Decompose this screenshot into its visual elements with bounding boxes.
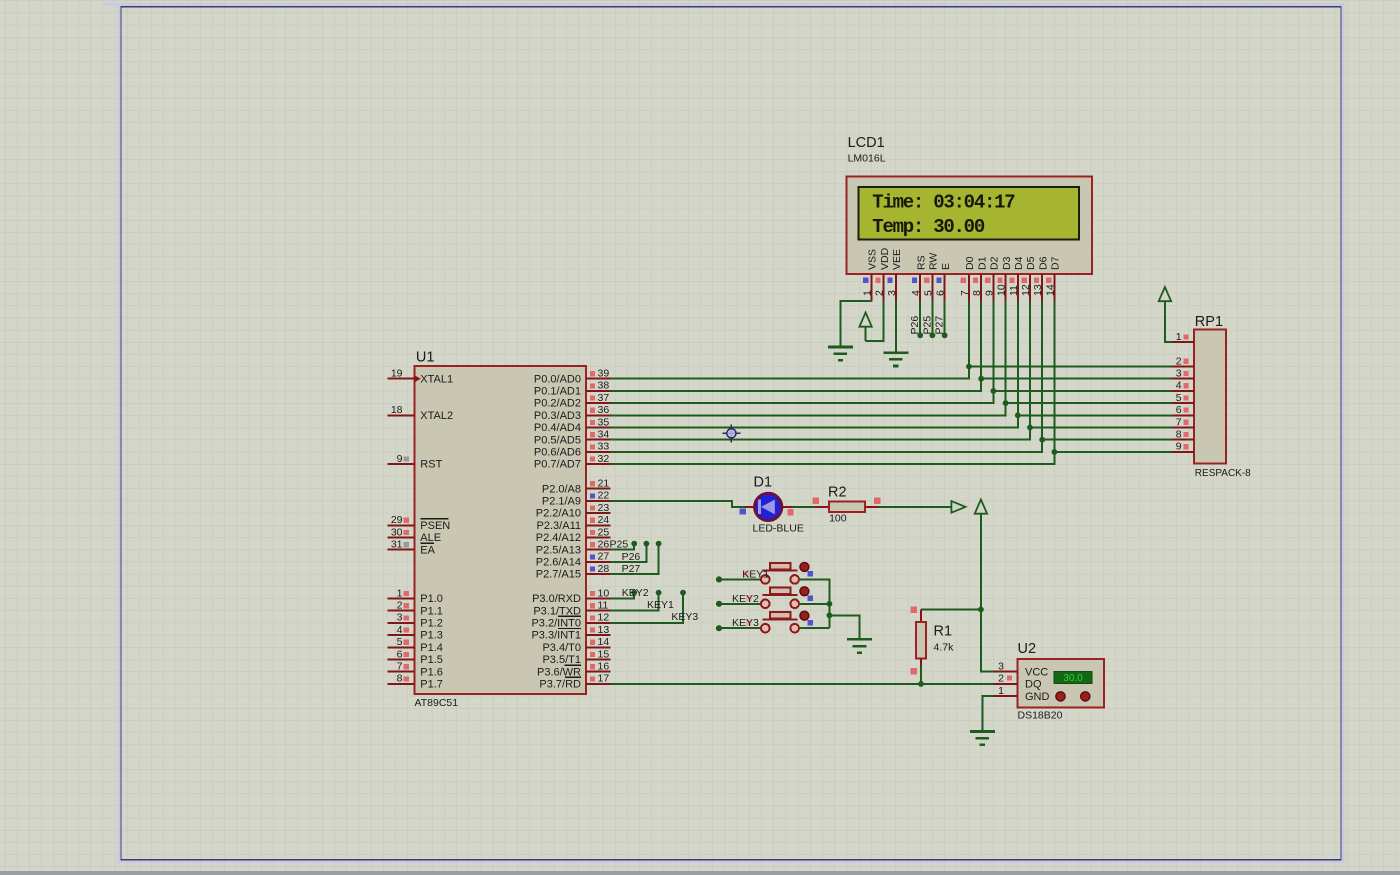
svg-text:P2.0/A8: P2.0/A8 (542, 483, 581, 495)
wire DQ net U1 P3.7 to U2 (611, 683, 994, 685)
svg-text:22: 22 (598, 490, 610, 502)
svg-text:D6: D6 (1037, 256, 1049, 270)
ground for LCD VSS (828, 347, 853, 360)
LCD1 pin 7 (D0) (959, 256, 976, 301)
RP1 pin 1 (1172, 331, 1194, 343)
wire net D3: LCD pin 10 / U1 P0.3 / RP1 pin 5 (611, 301, 1172, 415)
resistor pack RP1 body (1194, 329, 1226, 463)
svg-text:3: 3 (886, 290, 898, 296)
U1 pin 21 (P2.0/A8) (542, 478, 611, 496)
svg-text:XTAL1: XTAL1 (420, 373, 453, 385)
ground for U2 (970, 732, 995, 745)
push button KEY3 (716, 611, 813, 632)
svg-text:3: 3 (998, 660, 1004, 672)
svg-text:RW: RW (928, 253, 940, 270)
svg-text:VSS: VSS (867, 249, 879, 270)
wire RP1 pin1 to power (1165, 301, 1172, 343)
svg-text:4: 4 (1176, 380, 1182, 392)
wire net D7: LCD pin 14 / U1 P0.7 / RP1 pin 9 (611, 301, 1172, 464)
svg-text:38: 38 (598, 380, 610, 392)
RP1 pin 5 (1172, 392, 1194, 404)
svg-text:Temp: 30.00: Temp: 30.00 (872, 216, 985, 238)
svg-text:2: 2 (998, 673, 1004, 685)
U1 pin 3 (P1.2) (388, 612, 443, 630)
svg-text:KEY2: KEY2 (732, 593, 759, 605)
svg-text:5: 5 (1176, 392, 1182, 404)
wire U2 GND to ground (982, 696, 993, 731)
svg-text:Time: 03:04:17: Time: 03:04:17 (872, 191, 1015, 213)
wire U1 P2.6 net P26 (611, 541, 650, 562)
svg-text:2: 2 (874, 290, 886, 296)
U1 pin 27 (P2.6/A14) (536, 551, 611, 569)
svg-text:16: 16 (598, 661, 610, 673)
svg-text:2: 2 (397, 600, 403, 612)
svg-text:P3.7/RD: P3.7/RD (539, 679, 581, 691)
U1 pin 5 (P1.4) (388, 636, 443, 654)
svg-text:29: 29 (391, 514, 403, 526)
svg-text:P0.4/AD4: P0.4/AD4 (534, 422, 581, 434)
wire LCD VDD to power (866, 301, 884, 341)
RP1 pin 9 (1172, 441, 1194, 453)
svg-text:RS: RS (915, 255, 927, 270)
power symbol VCC rail (975, 500, 987, 514)
U1 pin 2 (P1.1) (388, 600, 443, 618)
svg-text:8: 8 (397, 673, 403, 685)
wire LCD pin 6 net P27 (934, 301, 948, 338)
wire net D4: LCD pin 11 / U1 P0.4 / RP1 pin 6 (611, 301, 1172, 428)
svg-text:P2.6/A14: P2.6/A14 (536, 557, 581, 569)
svg-text:4: 4 (910, 290, 922, 296)
svg-text:P25: P25 (610, 539, 629, 551)
U1 pin 4 (P1.3) (388, 624, 443, 642)
svg-text:15: 15 (598, 648, 610, 660)
RP1 pin 7 (1172, 416, 1194, 428)
svg-text:34: 34 (598, 429, 610, 441)
svg-text:KEY1: KEY1 (647, 599, 674, 611)
svg-text:P1.6: P1.6 (420, 666, 443, 678)
svg-text:P3.1/TXD: P3.1/TXD (533, 605, 581, 617)
LCD1 pin 2 (VDD) (874, 247, 891, 301)
svg-text:RST: RST (420, 459, 442, 471)
wire U1 net KEY2 (611, 590, 638, 599)
svg-text:KEY3: KEY3 (671, 611, 698, 623)
svg-text:10: 10 (996, 284, 1008, 296)
svg-text:LM016L: LM016L (848, 153, 886, 165)
U1 pin 13 (P3.3/INT1) (531, 624, 610, 642)
wire buttons common to ground (829, 615, 859, 639)
junction VCC/R1 (978, 607, 984, 613)
U2 body (DS18B20) (1017, 659, 1104, 708)
U1 pin 35 (P0.4/AD4) (534, 416, 611, 434)
wire net D2: LCD pin 9 / U1 P0.2 / RP1 pin 4 (611, 301, 1172, 403)
svg-text:4: 4 (397, 624, 403, 636)
junction bus/ground branch (827, 612, 833, 618)
svg-text:14: 14 (1044, 284, 1056, 296)
svg-text:VDD: VDD (879, 247, 891, 270)
U1 pin 32 (P0.7/AD7) (534, 453, 611, 471)
LCD1 pin 5 (RW) (922, 253, 939, 302)
svg-text:P26: P26 (622, 551, 641, 563)
wire power stem VDD (865, 326, 867, 341)
wire KEY2 right (799, 603, 829, 605)
label KEY1 (742, 568, 769, 580)
svg-text:27: 27 (598, 551, 610, 563)
U1 pin 33 (P0.6/AD6) (534, 441, 611, 459)
D1 lead segments (745, 506, 793, 508)
resistor R1 (916, 610, 926, 669)
svg-text:LCD1: LCD1 (848, 135, 885, 151)
U1 pin 1 (P1.0) (388, 587, 443, 605)
push button KEY1 (716, 563, 813, 584)
power symbol RP1 (1159, 287, 1171, 301)
U1 pin 29 (PSEN) (388, 514, 451, 532)
svg-text:31: 31 (391, 539, 403, 551)
wire net D5: LCD pin 12 / U1 P0.5 / RP1 pin 7 (611, 301, 1172, 440)
svg-text:P0.7/AD7: P0.7/AD7 (534, 459, 581, 471)
svg-text:P27: P27 (934, 316, 946, 335)
svg-text:P3.3/INT1: P3.3/INT1 (531, 630, 581, 642)
wire LCD VEE to ground (895, 301, 897, 353)
U1 pin 14 (P3.4/T0) (542, 636, 610, 654)
svg-text:VEE: VEE (891, 249, 903, 270)
wire net D0: LCD pin 7 / U1 P0.0 / RP1 pin 2 (611, 301, 1172, 379)
U1 pin 23 (P2.2/A10) (536, 502, 611, 520)
svg-text:21: 21 (598, 478, 610, 490)
wire U1 net KEY3 (611, 590, 686, 623)
U1 pin 24 (P2.3/A11) (537, 514, 611, 532)
svg-text:P1.5: P1.5 (420, 654, 443, 666)
svg-text:AT89C51: AT89C51 (415, 697, 459, 709)
wire U1 P2.5 net P25 (611, 541, 638, 550)
svg-text:37: 37 (598, 392, 610, 404)
U1 pin 18 (XTAL2) (388, 404, 454, 422)
svg-text:KEY1: KEY1 (742, 568, 769, 580)
svg-text:9: 9 (1176, 441, 1182, 453)
U1 pin 12 (P3.2/INT0) (531, 612, 610, 630)
svg-text:4.7k: 4.7k (934, 641, 955, 653)
RP1 pin 4 (1172, 380, 1194, 392)
LCD1 pin 9 (D2) (983, 256, 1000, 301)
svg-text:KEY3: KEY3 (732, 617, 759, 629)
label KEY2 (732, 593, 759, 605)
svg-text:D7: D7 (1050, 256, 1062, 270)
svg-text:P1.2: P1.2 (420, 618, 443, 630)
svg-text:30: 30 (391, 526, 403, 538)
svg-text:KEY2: KEY2 (622, 587, 649, 599)
svg-text:P2.3/A11: P2.3/A11 (537, 520, 581, 532)
svg-text:ALE: ALE (420, 532, 441, 544)
R1 state squares (911, 607, 918, 675)
svg-text:7: 7 (959, 290, 971, 296)
svg-text:DS18B20: DS18B20 (1018, 710, 1063, 722)
svg-text:7: 7 (1176, 416, 1182, 428)
svg-text:12: 12 (598, 612, 610, 624)
ground for buttons (847, 639, 872, 652)
svg-text:P26: P26 (909, 316, 921, 335)
svg-text:XTAL2: XTAL2 (420, 410, 453, 422)
U2 internal labels (1025, 666, 1050, 703)
power symbol VDD (859, 313, 871, 327)
U1 pin 31 (EA) (388, 539, 436, 557)
RP1 pin 2 (1172, 355, 1194, 367)
svg-text:10: 10 (598, 587, 610, 599)
svg-text:14: 14 (598, 636, 610, 648)
U1 pin 37 (P0.2/AD2) (534, 392, 611, 410)
wire R1 bottom to DQ (920, 666, 922, 684)
U2 adjust buttons (1056, 692, 1090, 701)
IC U1 body (AT89C51) (414, 366, 586, 694)
svg-text:2: 2 (1176, 355, 1182, 367)
U1 pin 10 (P3.0/RXD) (532, 587, 610, 605)
U1 pin 39 (P0.0/AD0) (534, 368, 611, 386)
svg-text:23: 23 (598, 502, 610, 514)
wire U1 net KEY1 (611, 590, 662, 611)
svg-text:19: 19 (391, 368, 403, 380)
LCD1 screen (859, 187, 1079, 240)
svg-text:P3.2/INT0: P3.2/INT0 (531, 618, 581, 630)
svg-text:P0.1/AD1: P0.1/AD1 (534, 386, 581, 398)
svg-text:17: 17 (598, 673, 610, 685)
LCD1 pin 4 (RS) (910, 255, 927, 301)
svg-text:D5: D5 (1025, 256, 1037, 270)
junction R1/DQ (918, 681, 924, 687)
svg-text:P0.0/AD0: P0.0/AD0 (534, 373, 581, 385)
resistor R2 (829, 501, 865, 512)
svg-text:5: 5 (922, 290, 934, 296)
svg-text:1: 1 (998, 685, 1004, 697)
RP1 pin 8 (1172, 429, 1194, 441)
U1 pin 6 (P1.5) (388, 648, 443, 666)
svg-text:13: 13 (1032, 284, 1044, 296)
svg-text:D3: D3 (1001, 256, 1013, 270)
svg-text:28: 28 (598, 563, 610, 575)
wire KEY3 right (799, 627, 829, 629)
svg-text:P0.3/AD3: P0.3/AD3 (534, 410, 581, 422)
ground for LCD VEE (883, 353, 908, 366)
svg-text:39: 39 (598, 368, 610, 380)
svg-text:VCC: VCC (1025, 666, 1048, 678)
svg-text:P2.7/A15: P2.7/A15 (536, 569, 581, 581)
svg-text:32: 32 (598, 453, 610, 465)
U1 pin 25 (P2.4/A12) (536, 526, 611, 544)
U1 pin 16 (P3.6/WR) (537, 661, 611, 679)
R2 state squares (813, 498, 881, 505)
svg-text:13: 13 (598, 624, 610, 636)
svg-text:6: 6 (935, 290, 947, 296)
U1 pin 22 (P2.1/A9) (542, 490, 611, 508)
U2 pin 3 (VCC) (993, 660, 1017, 672)
wire VCC rail (981, 513, 994, 672)
svg-text:U2: U2 (1018, 641, 1037, 657)
svg-text:24: 24 (598, 514, 610, 526)
U1 pin 38 (P0.1/AD1) (534, 380, 611, 398)
svg-text:1: 1 (861, 290, 873, 296)
U1 pin 19 (XTAL1) (388, 368, 454, 386)
svg-text:11: 11 (598, 600, 609, 612)
U1 pin 11 (P3.1/TXD) (533, 600, 610, 618)
U1 pin 28 (P2.7/A15) (536, 563, 611, 581)
svg-text:35: 35 (598, 416, 610, 428)
svg-text:100: 100 (829, 513, 847, 525)
wire net D1: LCD pin 8 / U1 P0.1 / RP1 pin 3 (611, 301, 1172, 391)
svg-text:P2.4/A12: P2.4/A12 (536, 532, 581, 544)
U1 pin 26 (P2.5/A13) (536, 539, 611, 557)
svg-text:18: 18 (391, 404, 403, 416)
wire D1 to R2 to terminal (753, 506, 951, 508)
svg-text:8: 8 (971, 290, 983, 296)
svg-text:P3.6/WR: P3.6/WR (537, 666, 581, 678)
svg-text:RP1: RP1 (1195, 314, 1223, 330)
LCD1 pin 13 (D6) (1032, 256, 1049, 301)
svg-text:P0.2/AD2: P0.2/AD2 (534, 398, 581, 410)
U1 pin 8 (P1.7) (388, 673, 443, 691)
svg-text:36: 36 (598, 404, 610, 416)
wire LCD pin 4 net P26 (909, 301, 923, 338)
LCD1 pin 1 (VSS) (861, 249, 878, 302)
LCD1 body (LM016L) (847, 177, 1092, 274)
LCD1 pin 14 (D7) (1044, 256, 1061, 301)
svg-text:3: 3 (1176, 368, 1182, 380)
svg-text:P1.7: P1.7 (420, 679, 443, 691)
wire KEY1 right to bus (799, 579, 829, 628)
LCD1 pin 11 (D4) (1008, 256, 1025, 301)
svg-text:30.0: 30.0 (1063, 673, 1083, 684)
svg-text:GND: GND (1025, 691, 1050, 703)
LCD1 pin 6 (E) (935, 263, 952, 302)
U1 pin 17 (P3.7/RD) (539, 673, 610, 691)
D1 state squares (740, 508, 794, 515)
svg-text:D0: D0 (964, 256, 976, 270)
svg-text:P2.1/A9: P2.1/A9 (542, 496, 581, 508)
svg-text:5: 5 (397, 636, 403, 648)
wire R1 top to rail (921, 609, 981, 611)
svg-text:D1: D1 (976, 256, 988, 270)
svg-text:U1: U1 (416, 350, 435, 366)
RP1 pin 6 (1172, 404, 1194, 416)
svg-text:P3.0/RXD: P3.0/RXD (532, 593, 581, 605)
U2 pin 1 (GND) (993, 685, 1017, 697)
U1 pin 34 (P0.5/AD5) (534, 429, 611, 447)
svg-text:P0.5/AD5: P0.5/AD5 (534, 434, 581, 446)
svg-text:P3.4/T0: P3.4/T0 (542, 642, 581, 654)
svg-text:1: 1 (397, 587, 403, 599)
svg-text:P1.0: P1.0 (420, 593, 443, 605)
wire U1 P2.7 net P27 (611, 541, 662, 574)
LCD1 pin 3 (VEE) (886, 249, 903, 302)
U2 pin 2 (DQ) (993, 673, 1017, 685)
RP1 pin 3 (1172, 368, 1194, 380)
svg-text:D1: D1 (754, 474, 773, 490)
wire LCD VSS to ground (840, 301, 871, 347)
svg-text:P2.5/A13: P2.5/A13 (536, 544, 581, 556)
U1 pin 7 (P1.6) (388, 661, 443, 679)
junction KEY2/bus (827, 601, 833, 607)
wire net D6: LCD pin 13 / U1 P0.6 / RP1 pin 8 (611, 301, 1172, 452)
LCD1 pin 10 (D3) (996, 256, 1013, 301)
svg-text:11: 11 (1008, 285, 1020, 296)
svg-text:P27: P27 (622, 563, 641, 575)
svg-text:P1.1: P1.1 (420, 605, 443, 617)
R2 lead segments (815, 506, 879, 508)
svg-text:RESPACK-8: RESPACK-8 (1195, 468, 1251, 479)
svg-text:6: 6 (397, 648, 403, 660)
svg-text:9: 9 (397, 453, 403, 465)
svg-text:D2: D2 (989, 256, 1001, 270)
svg-text:E: E (940, 263, 952, 270)
svg-text:3: 3 (397, 612, 403, 624)
svg-text:P0.6/AD6: P0.6/AD6 (534, 447, 581, 459)
LCD1 pin 8 (D1) (971, 256, 988, 301)
svg-text:P3.5/T1: P3.5/T1 (542, 654, 581, 666)
svg-text:PSEN: PSEN (420, 520, 450, 532)
svg-text:7: 7 (397, 661, 403, 673)
svg-text:DQ: DQ (1025, 679, 1042, 691)
wire U1 P2.1 to D1 (611, 501, 754, 507)
svg-text:8: 8 (1176, 429, 1182, 441)
push button KEY2 (716, 587, 813, 608)
U1 pin 36 (P0.3/AD3) (534, 404, 611, 422)
wire LCD pin 5 net P25 (921, 301, 935, 338)
svg-text:9: 9 (983, 290, 995, 296)
label KEY3 (732, 617, 759, 629)
svg-text:EA: EA (420, 544, 435, 556)
terminal arrow (right) (951, 501, 965, 513)
svg-text:D4: D4 (1013, 256, 1025, 270)
svg-text:26: 26 (598, 539, 610, 551)
LCD1 pin 12 (D5) (1020, 256, 1037, 301)
U2 temperature display 30.0 (1054, 672, 1092, 684)
svg-text:33: 33 (598, 441, 610, 453)
svg-text:R1: R1 (934, 624, 953, 640)
svg-text:P1.4: P1.4 (420, 642, 443, 654)
LED D1 (755, 493, 782, 520)
svg-text:12: 12 (1020, 284, 1032, 296)
svg-text:P2.2/A10: P2.2/A10 (536, 508, 581, 520)
svg-text:P1.3: P1.3 (420, 630, 443, 642)
svg-text:P25: P25 (921, 316, 933, 335)
U1 pin 9 (RST) (388, 453, 443, 471)
svg-text:R2: R2 (828, 484, 847, 500)
origin marker (722, 424, 740, 442)
svg-text:LED-BLUE: LED-BLUE (753, 522, 804, 534)
svg-text:25: 25 (598, 526, 610, 538)
svg-text:1: 1 (1176, 331, 1182, 343)
svg-text:6: 6 (1176, 404, 1182, 416)
U1 pin 15 (P3.5/T1) (542, 648, 610, 666)
U1 pin 30 (ALE) (388, 526, 441, 544)
